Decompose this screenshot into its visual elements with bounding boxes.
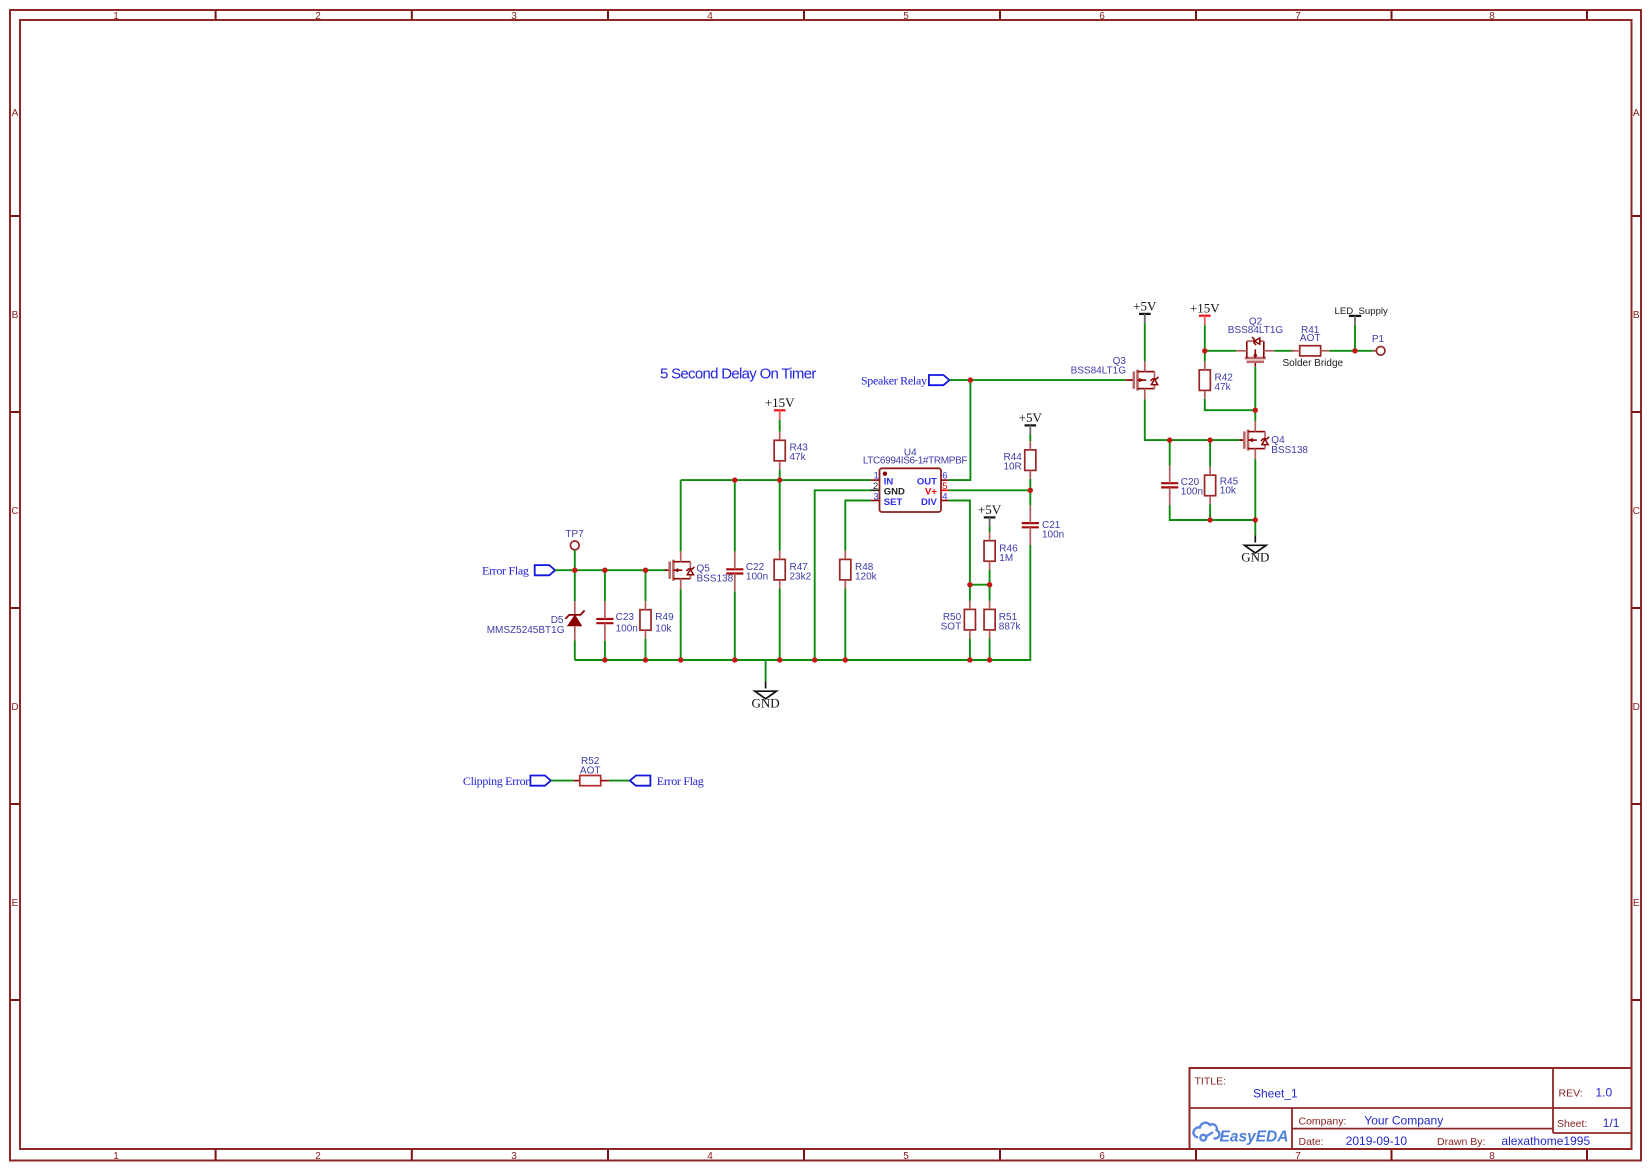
svg-text:1/1: 1/1 <box>1603 1116 1620 1130</box>
net flag Error Flag (right) symbol <box>630 776 651 786</box>
svg-text:D: D <box>11 702 18 713</box>
wire Q2 source wire <box>1205 350 1236 352</box>
svg-text:100n: 100n <box>746 572 768 583</box>
U4 pin 5 stub <box>941 489 949 491</box>
junction rail/Q5 <box>678 657 683 662</box>
svg-text:A: A <box>12 108 19 119</box>
svg-text:BSS84LT1G: BSS84LT1G <box>1228 325 1284 336</box>
pin 1 of R48 <box>844 551 846 560</box>
junction DIV / R50 <box>967 582 972 587</box>
svg-text:1.0: 1.0 <box>1596 1085 1613 1099</box>
junction IN bus / R43 / R47 <box>777 477 782 482</box>
resistor R46 body <box>984 541 995 562</box>
pin 2 of R43 <box>779 461 781 470</box>
EasyEDA logo cloud icon <box>1193 1123 1219 1141</box>
U4 pin 4 stub <box>941 500 949 502</box>
net flag Clipping Error symbol <box>530 776 551 786</box>
svg-text:Sheet:: Sheet: <box>1557 1118 1587 1130</box>
svg-text:C: C <box>1633 506 1640 517</box>
svg-text:4: 4 <box>942 491 947 502</box>
resistor R51 body <box>984 609 995 630</box>
svg-text:1: 1 <box>113 1151 119 1162</box>
net flag Error Flag symbol <box>535 565 556 575</box>
pin 2 of C20 <box>1169 487 1171 505</box>
svg-text:TITLE:: TITLE: <box>1195 1076 1227 1088</box>
svg-text:MMSZ5245BT1G: MMSZ5245BT1G <box>487 625 565 636</box>
svg-text:7: 7 <box>1295 11 1301 22</box>
wire net U4-GND <box>815 490 871 660</box>
svg-text:Date:: Date: <box>1299 1136 1324 1148</box>
svg-text:BSS138: BSS138 <box>697 573 734 584</box>
junction Speaker Relay / OUT <box>968 377 973 382</box>
wire R42 top wire <box>1204 325 1206 351</box>
svg-text:7: 7 <box>1295 1151 1301 1162</box>
svg-text:6: 6 <box>1099 1151 1105 1162</box>
junction rail/R47 <box>777 657 782 662</box>
pin 2 of R42 <box>1204 390 1206 399</box>
wire R44 top wire <box>1029 435 1031 442</box>
wire C23 top wire <box>604 570 606 601</box>
svg-text:D: D <box>1633 702 1640 713</box>
junction Error Flag / TP7 / D5 <box>572 568 577 573</box>
wire C20 top wire <box>1169 440 1171 465</box>
svg-text:Error Flag: Error Flag <box>657 774 704 788</box>
svg-text:8: 8 <box>1489 1151 1495 1162</box>
junction +15V / R42 / Q2 <box>1202 348 1207 353</box>
svg-text:10R: 10R <box>1003 462 1021 473</box>
wire R52 to Error Flag wire <box>609 780 630 782</box>
U4 pin 1 stub <box>871 479 880 481</box>
junction rail2 / Q4 source <box>1253 517 1258 522</box>
svg-text:E: E <box>1633 898 1640 909</box>
wire R43 top wire <box>779 420 781 432</box>
test point TP7 symbol <box>570 541 579 550</box>
svg-text:+5V: +5V <box>1019 410 1043 425</box>
resistor R49 body <box>640 610 651 631</box>
resistor R52 body <box>580 776 601 786</box>
wire R46 top wire <box>989 527 991 533</box>
net flag Speaker Relay symbol <box>929 375 950 385</box>
wire Clipping Error wire <box>551 780 574 782</box>
svg-text:BSS84LT1G: BSS84LT1G <box>1071 366 1127 377</box>
pin 1 of R47 <box>779 551 781 560</box>
title block divider under company row <box>1292 1128 1553 1130</box>
svg-text:C: C <box>11 506 18 517</box>
svg-text:47k: 47k <box>1215 382 1232 393</box>
border row ticks right <box>1632 216 1642 1000</box>
svg-text:3: 3 <box>511 1151 517 1162</box>
pin 1 of R51 <box>989 601 991 610</box>
svg-text:4: 4 <box>707 11 713 22</box>
wire R47 top wire <box>779 480 781 551</box>
wire net DIV-R46 bridge <box>970 584 990 586</box>
wire R43 bottom wire <box>779 469 781 480</box>
wire GND2 stem wire <box>1254 520 1256 535</box>
junction Q3-source / C20 <box>1167 437 1172 442</box>
pin 1 of R41 <box>1291 350 1300 352</box>
svg-text:P1: P1 <box>1372 334 1385 345</box>
border row ticks left <box>10 216 20 1000</box>
resistor R50 body <box>964 609 975 630</box>
title block divider under title row <box>1190 1107 1632 1109</box>
svg-text:+15V: +15V <box>765 395 795 410</box>
wire C23 bottom wire <box>604 641 606 660</box>
resistor R47 body <box>774 559 785 580</box>
pin 1 of R52 <box>574 780 580 782</box>
wire R51 top wire <box>989 585 991 601</box>
svg-text:2: 2 <box>315 11 321 22</box>
wire C20 bottom wire <box>1170 505 1210 520</box>
pin 2 of R47 <box>779 580 781 589</box>
pin 2 of R48 <box>844 580 846 589</box>
junction IN bus / C22 <box>732 477 737 482</box>
wire net U4-SET <box>845 501 870 551</box>
pin 2 of C23 <box>604 623 606 641</box>
junction V+ / R44 / C21 <box>1028 488 1033 493</box>
Q4 gate stub <box>1241 439 1245 441</box>
pin 2 of D5 <box>574 626 576 641</box>
connector P1 <box>1376 347 1385 356</box>
wire Q3 source wire <box>1145 399 1241 440</box>
svg-text:Your Company: Your Company <box>1364 1114 1443 1128</box>
svg-text:B: B <box>12 310 19 321</box>
wire C21 top wire <box>1029 490 1031 505</box>
border column ticks top <box>216 10 1587 20</box>
pin 2 of C22 <box>734 574 736 592</box>
svg-text:Drawn By:: Drawn By: <box>1437 1136 1485 1148</box>
svg-text:887k: 887k <box>999 622 1022 633</box>
svg-text:AOT: AOT <box>580 765 601 776</box>
pin 1 of R42 <box>1204 361 1206 370</box>
transistor Q5 (BSS138 NMOS) <box>665 551 695 589</box>
wire R42 bottom wire <box>1205 399 1256 410</box>
wire R45 top wire <box>1209 440 1211 467</box>
svg-text:Error Flag: Error Flag <box>482 564 529 578</box>
U4 pin 3 stub <box>871 500 880 502</box>
U4 pin-1 marker dot <box>883 472 887 476</box>
border column ticks bottom <box>216 1149 1587 1161</box>
wire C21 bottom wire <box>990 545 1031 660</box>
svg-text:100n: 100n <box>1181 486 1203 497</box>
svg-text:EasyEDA: EasyEDA <box>1220 1129 1289 1146</box>
title block logo cell divider <box>1291 1108 1293 1149</box>
svg-text:AOT: AOT <box>1300 333 1321 344</box>
wire R47 bottom wire <box>779 588 781 660</box>
junction Error Flag / R49 <box>643 568 648 573</box>
pin 2 of R52 <box>601 780 609 782</box>
pin 2 of R49 <box>645 630 647 639</box>
wire Q5 source wire <box>680 589 682 660</box>
pin 2 of R45 <box>1209 496 1211 505</box>
junction Q3-source / R45 <box>1207 437 1212 442</box>
power flag +5V above R44 symbol <box>1025 424 1037 426</box>
svg-text:LTC6994IS6-1#TRMPBF: LTC6994IS6-1#TRMPBF <box>863 456 968 467</box>
svg-text:E: E <box>12 898 19 909</box>
svg-text:6: 6 <box>942 470 947 481</box>
wire R41 to LED Supply wire <box>1329 350 1375 352</box>
title block divider under sheet cell <box>1553 1132 1632 1134</box>
svg-text:Clipping Error: Clipping Error <box>463 774 529 788</box>
Q5 gate stub <box>666 569 670 571</box>
junction rail/U4-GND <box>812 657 817 662</box>
svg-text:alexathome1995: alexathome1995 <box>1501 1134 1590 1148</box>
resistor R44 body <box>1025 450 1036 471</box>
svg-text:5 Second Delay On Timer: 5 Second Delay On Timer <box>660 366 816 383</box>
svg-text:100n: 100n <box>616 624 638 635</box>
svg-text:3: 3 <box>511 11 517 22</box>
pin 1 of C22 <box>734 552 736 570</box>
wire Q4 drain wire <box>1254 410 1256 421</box>
wire R42 top wire 2 <box>1204 351 1206 362</box>
svg-text:LED_Supply: LED_Supply <box>1335 306 1389 317</box>
zener diode D5 body <box>568 615 582 625</box>
pin 1 of C21 <box>1029 505 1031 523</box>
svg-text:2: 2 <box>315 1151 321 1162</box>
junction rail2 / R45 <box>1207 517 1212 522</box>
wire net GND bottom rail <box>575 659 1031 661</box>
junction R41 / LED Supply / P1 <box>1352 348 1357 353</box>
wire R48 bottom wire <box>844 588 846 660</box>
pin 1 of R45 <box>1209 467 1211 476</box>
svg-text:C23: C23 <box>616 612 635 623</box>
wire net U4-DIV <box>949 501 970 585</box>
title block REV column divider <box>1552 1068 1554 1133</box>
TITLEBLOCK <box>1190 1068 1632 1149</box>
svg-text:Sheet_1: Sheet_1 <box>1253 1087 1298 1101</box>
svg-text:+5V: +5V <box>978 502 1002 517</box>
ground main symbol <box>755 681 777 699</box>
wire net Speaker Relay horizontal <box>949 379 1125 381</box>
U4 pin 6 stub <box>941 479 949 481</box>
wire net U4-OUT <box>949 380 971 480</box>
resistor R43 body <box>774 440 785 461</box>
CIRCUIT <box>463 299 1388 788</box>
power flag LED_Supply symbol <box>1349 315 1361 317</box>
wire Q4 source wire <box>1254 459 1256 520</box>
svg-text:TP7: TP7 <box>565 529 584 540</box>
wire R45 bottom wire <box>1209 504 1211 520</box>
svg-text:4: 4 <box>707 1151 713 1162</box>
transistor Q3 (BSS84 PMOS) <box>1129 361 1159 399</box>
wire R44 bottom wire <box>1029 479 1031 490</box>
svg-text:120k: 120k <box>855 572 878 583</box>
svg-text:23k2: 23k2 <box>790 572 812 583</box>
wire R50 top wire <box>969 585 971 601</box>
wire Q3 drain wire <box>1144 323 1146 361</box>
junction R42 / Q2 gate / Q4 drain <box>1253 408 1258 413</box>
pin 2 of R46 <box>989 561 991 570</box>
pin 2 of R51 <box>989 630 991 639</box>
wire net V+ horizontal <box>949 489 1031 491</box>
junction Error Flag / C23 <box>602 568 607 573</box>
wire Q2 drain wire <box>1274 350 1294 352</box>
junction rail/C22 <box>732 657 737 662</box>
svg-text:8: 8 <box>1489 11 1495 22</box>
svg-text:47k: 47k <box>790 452 807 463</box>
pin 2 of R41 <box>1321 350 1330 352</box>
pin 2 of C21 <box>1029 527 1031 545</box>
svg-text:1: 1 <box>113 11 119 22</box>
svg-text:1M: 1M <box>999 553 1013 564</box>
svg-text:10k: 10k <box>655 624 672 635</box>
junction rail/R48 <box>843 657 848 662</box>
capacitor C22 plates <box>726 569 743 573</box>
pin 2 of R50 <box>969 630 971 639</box>
op-amp/timer U4 LTC6994 body <box>880 468 942 512</box>
Q3 gate stub <box>1125 379 1134 381</box>
wire D5 bottom wire <box>574 640 576 660</box>
title block outline <box>1190 1068 1632 1149</box>
pin 1 of R49 <box>645 601 647 610</box>
pin 1 of D5 <box>574 601 576 615</box>
capacitor C23 plates <box>596 619 613 623</box>
svg-text:GND: GND <box>752 696 780 711</box>
wire C22 bottom wire <box>734 591 736 660</box>
svg-text:1: 1 <box>874 470 879 481</box>
svg-text:Speaker Relay: Speaker Relay <box>861 374 927 388</box>
capacitor C20 plates <box>1161 483 1178 487</box>
svg-text:5: 5 <box>903 1151 909 1162</box>
svg-text:BSS138: BSS138 <box>1271 445 1308 456</box>
zener diode D5 cathode bar <box>565 611 584 619</box>
wire R49 top wire <box>645 570 647 601</box>
svg-text:R49: R49 <box>655 612 674 623</box>
svg-text:A: A <box>1633 108 1640 119</box>
junction rail/C23 <box>602 657 607 662</box>
wire D5 top wire <box>574 570 576 601</box>
wire net U4-IN horizontal <box>681 479 871 481</box>
junction R46 / R51 <box>987 582 992 587</box>
svg-text:Company:: Company: <box>1299 1116 1347 1128</box>
resistor R45 body <box>1205 475 1216 496</box>
svg-text:B: B <box>1633 310 1640 321</box>
svg-text:10k: 10k <box>1220 486 1237 497</box>
svg-text:DIV: DIV <box>921 497 938 508</box>
svg-text:6: 6 <box>1099 11 1105 22</box>
pin 1 of R43 <box>779 432 781 441</box>
wire C22 top wire <box>734 480 736 551</box>
svg-text:SET: SET <box>884 497 903 508</box>
wire R50 bottom wire <box>969 638 971 660</box>
resistor R48 body <box>840 559 851 580</box>
pin 1 of P1 <box>1373 350 1377 352</box>
wire R46 bottom wire <box>989 570 991 585</box>
resistor R42 body <box>1199 370 1210 391</box>
wire Q5 drain wire <box>680 480 682 551</box>
power flag +15V above R43 symbol <box>774 409 786 411</box>
pin 1 of R50 <box>969 601 971 610</box>
power flag +5V above Q3 symbol <box>1139 313 1151 315</box>
wire LED Supply stem <box>1354 325 1356 351</box>
pin 1 of C23 <box>604 601 606 619</box>
svg-text:Solder Bridge: Solder Bridge <box>1283 358 1344 369</box>
svg-text:2019-09-10: 2019-09-10 <box>1346 1134 1408 1148</box>
pin 2 of R44 <box>1029 470 1031 479</box>
svg-text:3: 3 <box>874 491 879 502</box>
pin 1 of R44 <box>1029 441 1031 450</box>
wire R51 bottom wire <box>989 638 991 660</box>
wire net Error Flag horizontal <box>555 569 666 571</box>
pin 1 of C20 <box>1169 466 1171 484</box>
power flag +15V above R42 symbol <box>1199 315 1211 317</box>
ground right symbol <box>1245 535 1267 553</box>
svg-text:GND: GND <box>1241 550 1269 565</box>
wire R49 bottom wire <box>645 639 647 660</box>
resistor R41 body <box>1300 346 1321 356</box>
wire TP7 stem <box>574 550 576 570</box>
wire Q2 gate wire <box>1254 367 1256 410</box>
junction rail/R50 <box>967 657 972 662</box>
capacitor C21 plates <box>1022 523 1039 527</box>
wire GND symbol stem wire <box>765 660 767 681</box>
pin 1 of R46 <box>989 532 991 541</box>
U4 pin 2 stub <box>871 489 880 491</box>
svg-text:+15V: +15V <box>1190 301 1220 316</box>
junction rail/R51 <box>987 657 992 662</box>
svg-text:100n: 100n <box>1042 529 1064 540</box>
svg-text:5: 5 <box>903 11 909 22</box>
wire net GND2 rail <box>1210 519 1255 521</box>
transistor Q4 (BSS138 NMOS) <box>1239 421 1269 459</box>
svg-text:SOT: SOT <box>941 622 962 633</box>
svg-text:REV:: REV: <box>1559 1087 1583 1099</box>
transistor Q2 (BSS84 PMOS) <box>1236 337 1274 367</box>
junction rail/R49 <box>643 657 648 662</box>
svg-text:+5V: +5V <box>1133 299 1157 314</box>
power flag +5V above R46 symbol <box>984 516 996 518</box>
